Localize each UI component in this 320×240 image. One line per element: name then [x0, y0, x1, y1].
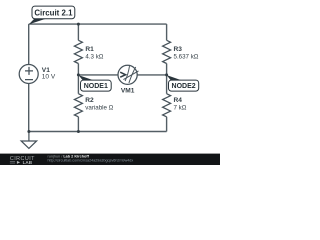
svg-text:R2: R2 [85, 97, 94, 104]
wire node1 to VM1 [78, 74, 118, 76]
resistor R4 [163, 94, 171, 117]
svg-text:R1: R1 [85, 46, 94, 53]
resistor R2 [74, 94, 82, 117]
junction dot bottom middle [77, 130, 80, 133]
voltage source V1 [19, 65, 38, 84]
svg-text:VM1: VM1 [121, 88, 135, 95]
voltmeter VM1 [118, 65, 139, 84]
wire right branch mid [166, 64, 168, 94]
label R3 value [174, 46, 199, 60]
wire top [29, 23, 167, 25]
svg-text:R4: R4 [174, 97, 183, 104]
callout Circuit 2.1 [29, 6, 75, 24]
svg-text:5.637 kΩ: 5.637 kΩ [174, 54, 199, 61]
wire bottom [29, 131, 167, 133]
svg-text:7 kΩ: 7 kΩ [174, 104, 187, 111]
footer bar [0, 154, 220, 165]
junction dot ground [27, 130, 30, 133]
label R4 value [174, 97, 187, 111]
wire left branch lower [28, 83, 30, 131]
svg-text:variable Ω: variable Ω [85, 104, 113, 111]
svg-text:Circuit 2.1: Circuit 2.1 [34, 8, 73, 17]
svg-text:http://circuitlab.com/c/nsa24a: http://circuitlab.com/c/nsa24a29a3bgqsv6… [48, 158, 134, 162]
wire middle branch top [77, 24, 79, 40]
footer logo CIRCUIT LAB [10, 156, 35, 165]
resistor R3 [163, 40, 171, 63]
wire right branch bottom [166, 117, 168, 132]
resistor R1 [74, 40, 82, 63]
wire middle branch bottom [77, 117, 79, 132]
svg-text:4.3 kΩ: 4.3 kΩ [85, 54, 103, 61]
svg-text:LAB: LAB [23, 160, 33, 165]
svg-text:NODE2: NODE2 [172, 83, 196, 90]
svg-text:10 V: 10 V [42, 73, 56, 80]
label R2 value [85, 97, 113, 111]
junction dot top [77, 23, 80, 26]
junction dot node1 [77, 73, 80, 76]
callout node NODE1 [79, 75, 112, 91]
svg-text:NODE1: NODE1 [84, 83, 108, 90]
wire left branch upper [28, 24, 30, 65]
label R1 value [85, 46, 103, 60]
svg-text:R3: R3 [174, 46, 183, 53]
callout node NODE2 [167, 75, 199, 91]
wire right branch top [166, 24, 168, 40]
wire middle branch mid [77, 64, 79, 94]
junction dot node2 [165, 73, 168, 76]
label V1 value [42, 67, 56, 80]
wire VM1 to node2 [137, 74, 166, 76]
ground [21, 132, 36, 149]
